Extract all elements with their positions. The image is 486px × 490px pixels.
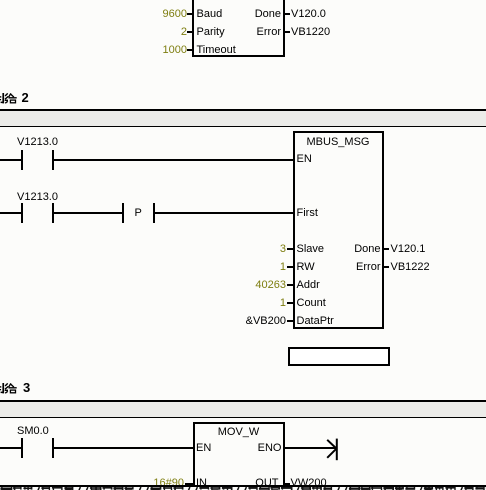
contact V1213.0 rung2 bar1 [21, 203, 23, 223]
pin tick IN [185, 483, 193, 485]
wire rung3 left [0, 447, 22, 449]
value 3 (Slave) [206, 244, 286, 254]
pin label Count [297, 298, 326, 308]
pin label EN [297, 154, 312, 164]
title MBUS_MSG [293, 137, 383, 147]
box U1 right border [283, 0, 285, 57]
network 2 title [0, 0, 40, 110]
box U2 MBUS_MSG [293, 131, 384, 329]
wire rung1 to EN [54, 159, 294, 161]
pin tick Count [287, 302, 293, 304]
pin label RW [297, 262, 315, 272]
box U1 bottom border [192, 55, 285, 57]
network 2 comment bar [0, 109, 486, 127]
value 1 (RW) [206, 262, 286, 272]
pin tick DataPtr [287, 320, 293, 322]
value 2 (Parity) [100, 27, 187, 37]
network 3 comment bar [0, 400, 486, 418]
node VW200 [291, 478, 327, 488]
pin label IN [196, 478, 207, 488]
wire rung2 left [0, 212, 22, 214]
wire rung3 to EN [54, 447, 193, 449]
glyph luo [5, 383, 17, 393]
pin label Slave [297, 244, 325, 254]
pin tick Timeout [187, 49, 193, 51]
network 2 number [22, 93, 29, 104]
box U3 MOV_W [193, 422, 285, 487]
node label V1213.0 (rung 2) [17, 192, 58, 202]
pin label ENO (U3) [231, 443, 282, 453]
contact V1213.0 rung1 bar2 [52, 150, 54, 170]
pin tick OUT [285, 483, 291, 485]
node V120.1 [391, 244, 426, 254]
pin tick RW [287, 266, 293, 268]
pin label Timeout [197, 45, 236, 55]
contact P bar1 [122, 203, 124, 223]
network 3 title [0, 290, 40, 400]
node V120.0 [291, 9, 326, 19]
node VB1220 [291, 27, 330, 37]
pin label Baud [197, 9, 223, 19]
pin label DataPtr [297, 316, 334, 326]
title MOV_W [193, 427, 285, 437]
pin tick Error (U1) [285, 31, 291, 33]
pin tick Slave [287, 248, 293, 250]
pin tick Done (U2) [384, 248, 390, 250]
wire rung2 middle [54, 212, 123, 214]
value 16#90 (IN) [104, 478, 184, 488]
pin label Done (U1) [230, 9, 281, 19]
wire ENO out [285, 447, 337, 449]
node label SM0.0 [17, 426, 49, 436]
pin tick Parity [187, 31, 193, 33]
contact SM0.0 bar1 [21, 438, 23, 458]
pin label Done (U2) [330, 244, 381, 254]
network 3 number [23, 383, 30, 394]
contact V1213.0 rung2 bar2 [52, 203, 54, 223]
contact V1213.0 rung1 bar1 [21, 150, 23, 170]
partial glyph wang [0, 383, 4, 393]
wire rung2 to First [154, 212, 293, 214]
operand edit box [288, 347, 390, 366]
value 40263 (Addr) [206, 280, 286, 290]
crop border line [0, 485, 486, 487]
pin tick Done (U1) [285, 13, 291, 15]
contact P bar2 [153, 203, 155, 223]
value 1 (Count) [206, 298, 286, 308]
value 1000 (Timeout) [100, 45, 187, 55]
glyph luo [5, 93, 17, 103]
contact SM0.0 bar2 [52, 438, 54, 458]
node label V1213.0 (rung 1) [17, 137, 58, 147]
pin tick Error (U2) [384, 266, 390, 268]
value &VB200 (DataPtr) [206, 316, 286, 326]
wire rung1 left [0, 159, 22, 161]
pin label EN (U3) [196, 443, 211, 453]
pin label Parity [197, 27, 225, 37]
pin tick Baud [187, 13, 193, 15]
box U1 MBUS_CTRL (top, cut off) left border [192, 0, 194, 57]
pin tick Addr [287, 284, 293, 286]
pin label Error (U1) [230, 27, 281, 37]
partial glyph wang [0, 93, 4, 103]
contact P label [135, 208, 142, 218]
pin label OUT [228, 478, 279, 488]
pin label First [297, 208, 318, 218]
arrow branch continuation [320, 434, 344, 464]
value 9600 (Baud) [100, 9, 187, 19]
node VB1222 [391, 262, 430, 272]
pin label Addr [297, 280, 320, 290]
pin label Error (U2) [330, 262, 381, 272]
